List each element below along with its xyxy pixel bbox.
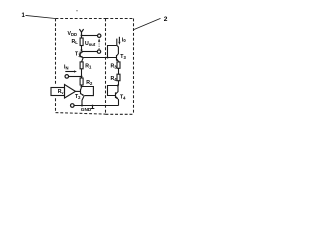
svg-text:R1: R1 xyxy=(85,64,92,70)
svg-text:2: 2 xyxy=(164,16,168,23)
svg-text:R2: R2 xyxy=(86,80,93,86)
svg-text:T1: T1 xyxy=(75,52,81,58)
svg-text:T4: T4 xyxy=(120,95,126,101)
svg-text:T2: T2 xyxy=(75,94,81,100)
svg-text:RL: RL xyxy=(72,39,79,45)
svg-text:IN: IN xyxy=(64,64,68,70)
svg-text:R4: R4 xyxy=(111,76,118,82)
svg-text:VDD: VDD xyxy=(68,31,78,37)
svg-text:I0: I0 xyxy=(122,37,126,43)
svg-text:Uout: Uout xyxy=(85,41,96,47)
svg-text:T3: T3 xyxy=(120,54,126,60)
svg-text:GND: GND xyxy=(81,107,92,112)
svg-text:R3: R3 xyxy=(111,63,118,69)
